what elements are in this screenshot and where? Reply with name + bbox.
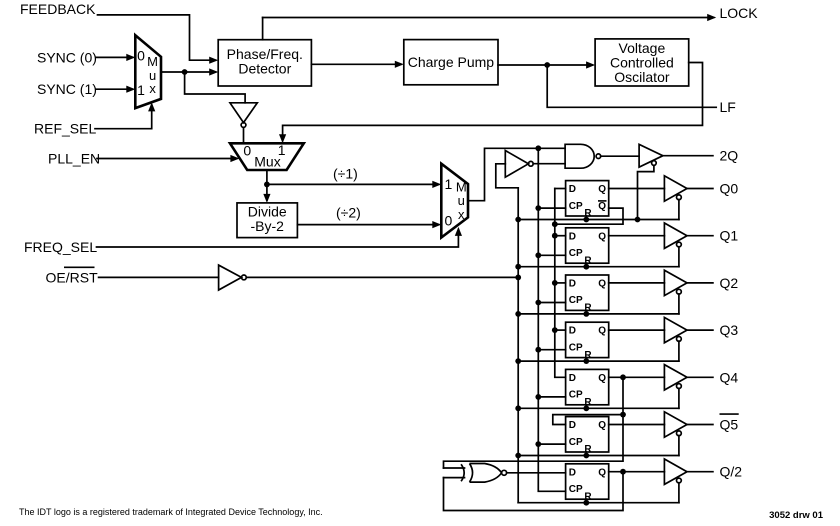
svg-text:CP: CP	[569, 295, 583, 306]
svg-text:D: D	[569, 373, 576, 384]
svg-text:CP: CP	[569, 248, 583, 259]
svg-text:CP: CP	[569, 390, 583, 401]
svg-text:3052 drw 01: 3052 drw 01	[769, 510, 824, 521]
svg-text:M: M	[147, 54, 158, 69]
svg-text:Q3: Q3	[720, 322, 739, 338]
svg-text:(÷2): (÷2)	[336, 204, 361, 220]
svg-text:Q4: Q4	[720, 369, 739, 385]
svg-text:R: R	[584, 208, 592, 219]
svg-text:D: D	[569, 279, 576, 290]
svg-text:R: R	[584, 350, 592, 361]
svg-text:x: x	[458, 207, 465, 222]
svg-text:0: 0	[243, 142, 251, 158]
svg-text:Oscilator: Oscilator	[614, 69, 670, 85]
svg-text:(÷1): (÷1)	[333, 166, 358, 182]
svg-text:1: 1	[137, 82, 145, 98]
svg-text:CP: CP	[569, 484, 583, 495]
svg-text:D: D	[569, 184, 576, 195]
svg-text:FREQ_SEL: FREQ_SEL	[24, 239, 97, 255]
svg-text:LOCK: LOCK	[720, 5, 759, 21]
svg-text:OE/RST: OE/RST	[46, 269, 99, 285]
svg-text:R: R	[584, 255, 592, 266]
svg-text:x: x	[149, 81, 156, 96]
svg-text:Q0: Q0	[720, 181, 739, 197]
svg-text:FEEDBACK: FEEDBACK	[20, 1, 96, 17]
svg-text:0: 0	[137, 47, 145, 63]
svg-text:R: R	[584, 444, 592, 455]
svg-text:D: D	[569, 326, 576, 337]
svg-text:PLL_EN: PLL_EN	[48, 150, 100, 166]
svg-text:Q: Q	[598, 201, 606, 212]
svg-text:Q: Q	[598, 231, 606, 242]
svg-text:-By-2: -By-2	[250, 218, 284, 234]
svg-text:CP: CP	[569, 342, 583, 353]
svg-text:Q: Q	[598, 184, 606, 195]
svg-text:1: 1	[445, 176, 453, 192]
svg-text:SYNC (0): SYNC (0)	[37, 49, 97, 65]
svg-text:0: 0	[445, 212, 453, 228]
svg-text:Mux: Mux	[254, 153, 280, 169]
svg-text:SYNC (1): SYNC (1)	[37, 81, 97, 97]
svg-text:REF_SEL: REF_SEL	[34, 121, 96, 137]
svg-text:2Q: 2Q	[720, 148, 739, 164]
svg-text:R: R	[584, 303, 592, 314]
svg-text:LF: LF	[720, 99, 736, 115]
svg-text:R: R	[584, 397, 592, 408]
svg-text:Q: Q	[598, 420, 606, 431]
svg-text:Q: Q	[598, 279, 606, 290]
svg-text:Q2: Q2	[720, 275, 739, 291]
svg-text:Detector: Detector	[238, 60, 291, 76]
svg-text:M: M	[456, 179, 467, 194]
svg-text:Q: Q	[598, 326, 606, 337]
svg-text:CP: CP	[569, 437, 583, 448]
svg-text:The IDT logo is a registered t: The IDT logo is a registered trademark o…	[19, 507, 323, 517]
svg-text:Q5: Q5	[720, 417, 739, 433]
svg-text:Q/2: Q/2	[720, 464, 743, 480]
svg-text:CP: CP	[569, 201, 583, 212]
svg-text:D: D	[569, 467, 576, 478]
svg-text:Q: Q	[598, 467, 606, 478]
svg-text:Charge Pump: Charge Pump	[408, 54, 495, 70]
svg-text:Q1: Q1	[720, 228, 739, 244]
svg-text:D: D	[569, 231, 576, 242]
svg-text:D: D	[569, 420, 576, 431]
svg-text:R: R	[584, 491, 592, 502]
svg-text:Q: Q	[598, 373, 606, 384]
